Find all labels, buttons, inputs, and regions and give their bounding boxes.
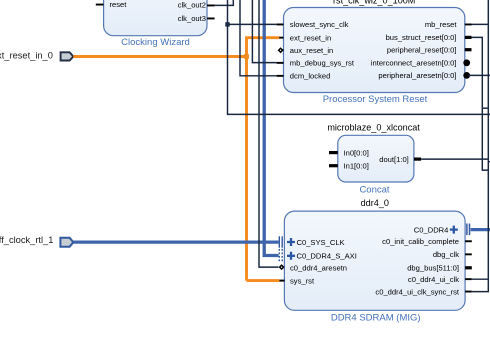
svg-text:rst_clk_wiz_0_100M: rst_clk_wiz_0_100M bbox=[333, 0, 415, 6]
svg-text:mb_debug_sys_rst: mb_debug_sys_rst bbox=[290, 59, 355, 68]
svg-text:dbg_bus[511:0]: dbg_bus[511:0] bbox=[407, 264, 459, 273]
port ext_reset_in_0 bbox=[0, 51, 73, 61]
svg-text:clk_out2: clk_out2 bbox=[178, 1, 206, 10]
svg-text:ddr4_0: ddr4_0 bbox=[361, 198, 389, 208]
wire orange ext_reset_in_0 net bbox=[73, 38, 279, 281]
pin clk_out2 stub bbox=[207, 5, 215, 7]
pin In1 stub bbox=[329, 164, 338, 167]
svg-text:microblaze_0_xlconcat: microblaze_0_xlconcat bbox=[327, 123, 420, 133]
block U2 Processor System Reset bbox=[284, 8, 465, 93]
wire interface diff_clock to C0_SYS_CLK (thick blue) bbox=[73, 240, 278, 243]
wire ui_clk trunk: top to corner right along y=114.4 bbox=[228, 0, 490, 114]
pin C0_DDR4 interface bars bbox=[467, 224, 470, 236]
pin In0 stub bbox=[329, 151, 338, 154]
svg-text:interconnect_aresetn[0:0]: interconnect_aresetn[0:0] bbox=[371, 59, 457, 68]
pin peripheral_aresetn junction dot bbox=[463, 72, 470, 79]
wire peripheral_aresetn exit right bbox=[468, 74, 490, 76]
junction at (227.5,24.4) bbox=[225, 22, 229, 26]
block U3 Concat bbox=[338, 135, 414, 182]
wire interface AXI vertical to C0_DDR4_S_AXI (thick blue) bbox=[264, 0, 278, 256]
svg-text:ext_reset_in: ext_reset_in bbox=[290, 33, 331, 42]
pin c0_init_calib_complete stub bbox=[465, 240, 472, 242]
svg-text:Processor System Reset: Processor System Reset bbox=[323, 94, 428, 105]
icon plus C0_DDR4 bbox=[450, 226, 458, 234]
block U1 Clocking Wizard (clipped at top) bbox=[104, 0, 207, 36]
pin dbg_clk stub bbox=[465, 253, 472, 255]
pin clk_out3 stub bbox=[207, 18, 215, 20]
wire dout exit right bbox=[421, 159, 490, 162]
wire bus_struct_reset right bbox=[472, 37, 489, 170]
pin reset stub bbox=[96, 4, 104, 6]
svg-text:DDR4 SDRAM (MIG): DDR4 SDRAM (MIG) bbox=[331, 313, 421, 324]
svg-text:c0_ddr4_aresetn: c0_ddr4_aresetn bbox=[290, 263, 347, 272]
wire c0_ddr4_ui_clk right bbox=[472, 278, 489, 280]
wire mb_reset right bbox=[472, 0, 489, 292]
svg-text:bus_struct_reset[0:0]: bus_struct_reset[0:0] bbox=[386, 33, 457, 42]
pin mb_reset stub bbox=[465, 24, 472, 26]
wire clk_out2 up bbox=[215, 0, 234, 5]
pin ext_reset_in stub bbox=[279, 37, 284, 39]
svg-text:In0[0:0]: In0[0:0] bbox=[344, 148, 369, 157]
pin dcm_locked stub bbox=[277, 75, 284, 77]
port diff_clock_rtl_1 bbox=[0, 235, 73, 247]
pin dbg_bus stub bbox=[465, 266, 472, 269]
pin mb_debug_sys_rst stub bbox=[277, 62, 284, 64]
pin C0_SYS_CLK interface bars bbox=[279, 236, 282, 248]
svg-text:dcm_locked: dcm_locked bbox=[290, 72, 331, 81]
pin C0_DDR4_S_AXI dashed interface bars bbox=[279, 249, 282, 261]
svg-text:c0_init_calib_complete: c0_init_calib_complete bbox=[382, 237, 459, 246]
junction orange at (246.5,56.5) bbox=[244, 54, 249, 59]
pin c0_ddr4_aresetn marker (diamond) bbox=[279, 264, 285, 270]
pin aux_reset_in unconnected marker (diamond) bbox=[282, 49, 284, 51]
svg-text:C0_DDR4_S_AXI: C0_DDR4_S_AXI bbox=[297, 252, 357, 261]
icon plus C0_DDR4_S_AXI bbox=[287, 252, 295, 260]
wire interface C0_DDR4 out (thick blue) bbox=[471, 228, 490, 231]
svg-text:clk_out3: clk_out3 bbox=[178, 14, 206, 23]
wire to slowest_sync_clk bbox=[228, 23, 277, 25]
svg-text:Concat: Concat bbox=[359, 185, 389, 196]
pin sys_rst stub bbox=[279, 280, 284, 282]
svg-text:mb_reset: mb_reset bbox=[425, 20, 458, 29]
pin slowest_sync_clk stub bbox=[277, 24, 284, 26]
svg-text:c0_ddr4_ui_clk_sync_rst: c0_ddr4_ui_clk_sync_rst bbox=[375, 287, 459, 296]
svg-text:slowest_sync_clk: slowest_sync_clk bbox=[290, 20, 349, 29]
svg-text:dout[1:0]: dout[1:0] bbox=[379, 155, 409, 164]
svg-text:reset: reset bbox=[110, 0, 128, 9]
svg-text:C0_DDR4: C0_DDR4 bbox=[414, 225, 449, 234]
svg-text:Clocking Wizard: Clocking Wizard bbox=[121, 37, 190, 48]
svg-text:C0_SYS_CLK: C0_SYS_CLK bbox=[297, 238, 345, 247]
svg-text:peripheral_aresetn[0:0]: peripheral_aresetn[0:0] bbox=[378, 71, 456, 80]
pin peripheral_reset stub bbox=[465, 48, 472, 51]
pin interconnect_aresetn junction dot bbox=[463, 59, 470, 66]
svg-text:In1[0:0]: In1[0:0] bbox=[344, 161, 369, 170]
wire locked to dcm_locked bbox=[240, 0, 277, 76]
icon plus C0_SYS_CLK bbox=[287, 238, 295, 246]
svg-text:aux_reset_in: aux_reset_in bbox=[290, 46, 333, 55]
svg-text:ext_reset_in_0: ext_reset_in_0 bbox=[0, 51, 53, 61]
wire debug to mb_debug_sys_rst bbox=[252, 0, 276, 63]
svg-text:c0_ddr4_ui_clk: c0_ddr4_ui_clk bbox=[408, 275, 459, 284]
block U4 DDR4 SDRAM (MIG) bbox=[284, 211, 465, 310]
pin c0_ddr4_ui_clk stub bbox=[465, 278, 472, 280]
wire jog at y=108.2 bbox=[482, 107, 488, 109]
svg-text:ff_clock_rtl_1: ff_clock_rtl_1 bbox=[0, 235, 53, 245]
svg-text:dbg_clk: dbg_clk bbox=[433, 250, 459, 259]
svg-text:sys_rst: sys_rst bbox=[290, 276, 315, 285]
wire aresetn net down to c0_ddr4_aresetn bbox=[259, 0, 279, 267]
pin c0_ddr4_ui_clk_sync_rst stub bbox=[465, 291, 472, 293]
svg-text:peripheral_reset[0:0]: peripheral_reset[0:0] bbox=[387, 45, 457, 54]
pin dout stub bbox=[414, 158, 421, 161]
pin bus_struct_reset stub bbox=[465, 36, 472, 39]
